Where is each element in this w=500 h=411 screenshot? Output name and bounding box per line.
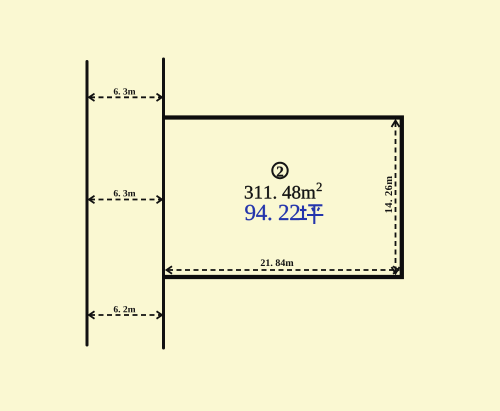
dimension arrow 6.3m (middle) — [89, 196, 162, 203]
dimension arrow 21.84m (horizontal, bottom) — [167, 266, 399, 273]
label area 94.22 tsubo (blue) — [245, 205, 299, 221]
label 21.84m — [261, 259, 294, 266]
dimension arrow 6.2m (bottom) — [89, 311, 162, 318]
label area 311.48 m2 — [245, 183, 322, 199]
node plot outline (top, right, bottom edges) — [162, 118, 402, 278]
dimension arrow 14.26m (vertical, right side) — [392, 121, 400, 274]
label 6.3m (top) — [114, 88, 136, 94]
node circled number 2 — [272, 163, 287, 178]
glyph tsubo (drawn) — [300, 205, 324, 224]
wire: right road boundary line — [162, 59, 165, 348]
label 6.3m (middle) — [114, 190, 136, 196]
dimension arrow 6.3m (top) — [89, 94, 162, 101]
label 14.26m (rotated) — [385, 176, 392, 212]
label 6.2m (bottom) — [114, 306, 136, 312]
wire: left road boundary line — [86, 62, 89, 346]
